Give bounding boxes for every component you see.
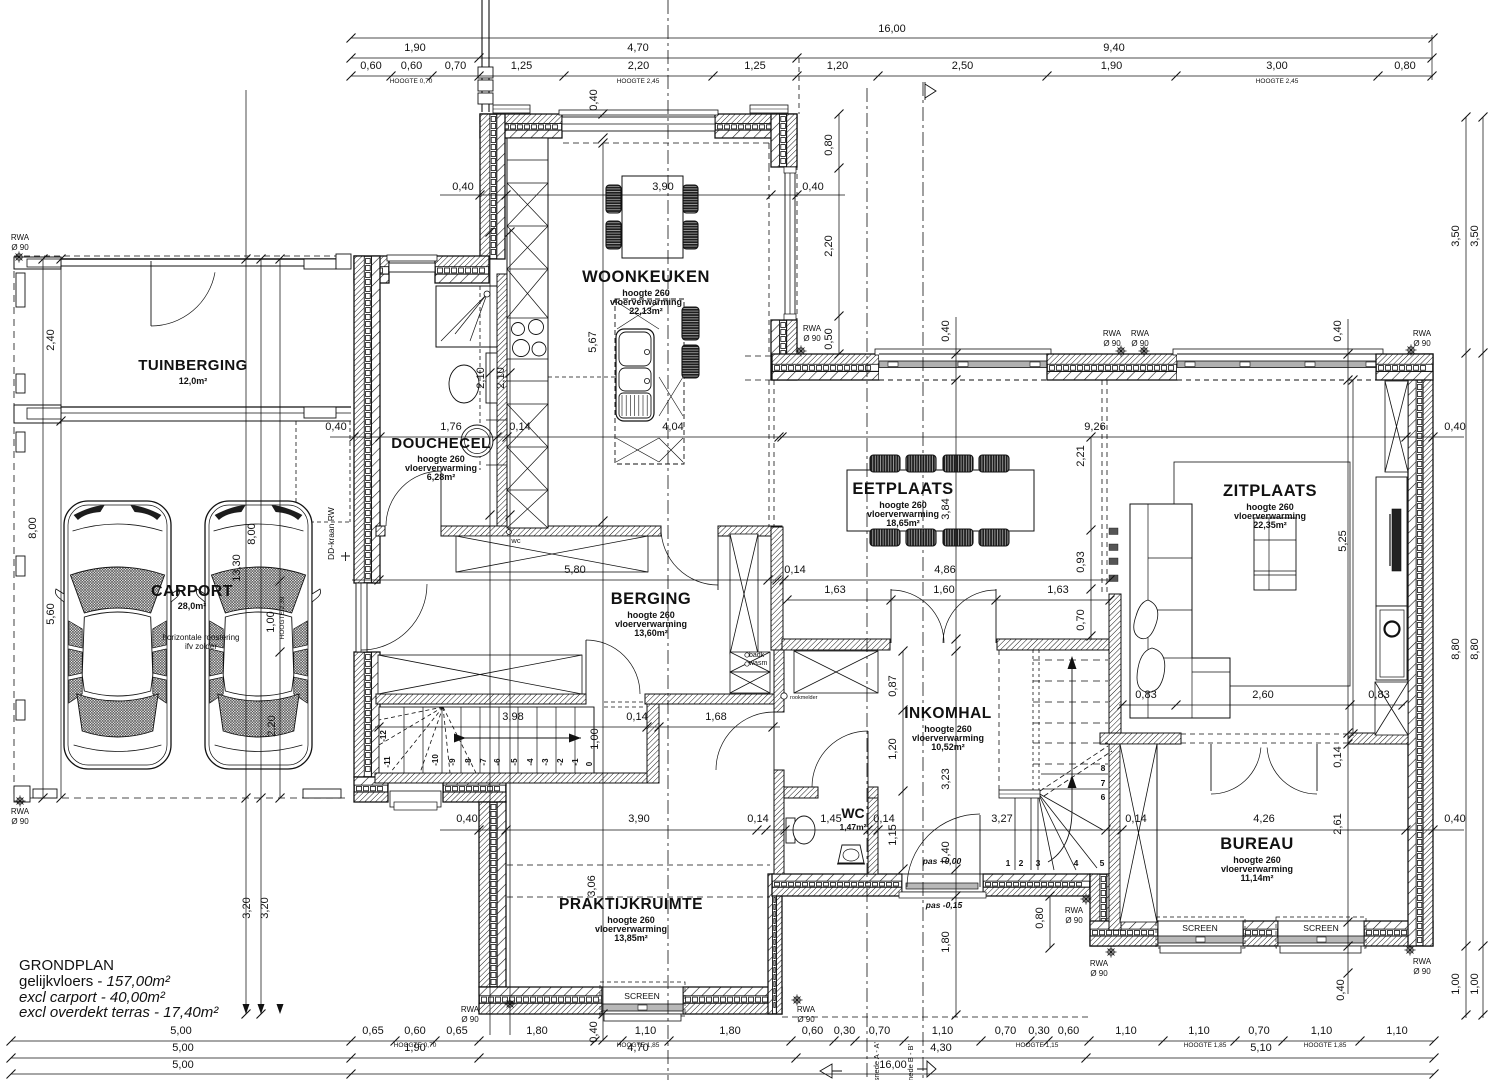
RWA symbol carport bottom-left (15, 796, 26, 807)
svg-text:0,40: 0,40 (325, 421, 346, 433)
dashed counter line douchecel (548, 376, 615, 378)
svg-text:ZITPLAATS: ZITPLAATS (1223, 482, 1317, 500)
car 2 in carport (196, 501, 320, 769)
stairs: upper direction arrow (1048, 658, 1072, 862)
svg-text:7: 7 (1101, 778, 1106, 788)
svg-text:1,00: 1,00 (1450, 973, 1462, 994)
window: north wing window 2 (1173, 349, 1383, 355)
witness line x=956 eetplaats/inkomhal (955, 317, 957, 1017)
RWA symbol kitchen west (796, 346, 807, 357)
svg-text:-9: -9 (448, 758, 457, 766)
svg-text:0,70: 0,70 (995, 1025, 1016, 1037)
wall: north wing, segment between windows (1047, 354, 1177, 364)
svg-text:3,50: 3,50 (1469, 225, 1481, 246)
svg-text:1,68: 1,68 (705, 711, 726, 723)
dimension chain: left 2,40 5,60 (60, 259, 62, 798)
svg-text:1,10: 1,10 (1311, 1025, 1332, 1037)
svg-text:10,52m²: 10,52m² (931, 742, 965, 752)
svg-text:0,30: 0,30 (1028, 1025, 1049, 1037)
svg-text:9,26: 9,26 (1084, 421, 1105, 433)
svg-text:0,40: 0,40 (940, 841, 952, 862)
wall: east facade (1408, 354, 1416, 946)
svg-text:2,20: 2,20 (823, 235, 835, 256)
svg-text:5,60: 5,60 (45, 603, 57, 624)
stairs: basement winder dashes (379, 707, 443, 720)
svg-text:1,90: 1,90 (404, 1042, 425, 1054)
svg-text:0,70: 0,70 (1248, 1025, 1269, 1037)
convector grilles at sliding door (1109, 528, 1118, 535)
window: douchecel north window (387, 255, 437, 261)
witness line x=903 inkomhal (902, 651, 904, 869)
svg-text:0,70: 0,70 (869, 1025, 890, 1037)
svg-text:DOUCHECEL: DOUCHECEL (391, 435, 491, 452)
stairs: upper cut dashes (1040, 746, 1108, 791)
svg-text:1,60: 1,60 (933, 584, 954, 596)
car 1 in carport (55, 501, 179, 769)
svg-text:-8: -8 (464, 758, 473, 766)
RWA symbol praktijk south-west (505, 999, 516, 1010)
door: kitchen-berging door (717, 528, 719, 590)
svg-text:1,25: 1,25 (511, 60, 532, 72)
wall: berging south exterior, west segment (354, 777, 388, 785)
section line axis kitchen (667, 0, 669, 1080)
window: bureau south window 2 SCREEN (1278, 921, 1364, 946)
svg-text:3,00: 3,00 (1266, 60, 1287, 72)
svg-text:RWA: RWA (803, 324, 822, 333)
RWA symbol bureau south-west (1106, 947, 1117, 958)
svg-text:1,90: 1,90 (1101, 60, 1122, 72)
witness line: right end of top chains (1431, 35, 1433, 80)
dimension chain: top detailed (351, 75, 1433, 77)
douchecel toilet (486, 353, 497, 403)
svg-text:ifv zolder: ifv zolder (185, 642, 217, 651)
svg-text:-10: -10 (431, 754, 440, 766)
zitplaats coffee table (1254, 518, 1296, 590)
dashed line: north wing wall stubs west of kitchen wall (745, 355, 772, 357)
post: tuinberging top-left (14, 257, 61, 269)
svg-text:RWA: RWA (1413, 957, 1432, 966)
kitchen table (622, 176, 683, 258)
shower tray (436, 286, 497, 347)
svg-text:RWA: RWA (1065, 906, 1084, 915)
svg-text:2,20: 2,20 (266, 715, 278, 736)
chimney at kitchen top-left (481, 0, 483, 112)
svg-text:0,14: 0,14 (1125, 813, 1146, 825)
post: divider right (304, 407, 336, 418)
window: north wing window 1 (875, 349, 1051, 355)
dimension chain: bottom middle (11, 1057, 1434, 1059)
post: tuinberging west low (16, 374, 25, 393)
svg-text:excl overdekt terras - 17,40m²: excl overdekt terras - 17,40m² (19, 1004, 219, 1021)
bureau closet (1120, 744, 1157, 922)
dimension line: kitchen 0,40 3,90 0,40 (440, 194, 845, 196)
zone: DD-kraan dashed duct (295, 421, 297, 522)
svg-text:0,40: 0,40 (1444, 421, 1465, 433)
svg-text:1,25: 1,25 (744, 60, 765, 72)
wc toilet (786, 818, 795, 843)
dashed line: zitplaats vide edge (1101, 380, 1103, 594)
wall: bureau south, east segment (1364, 921, 1433, 929)
RWA symbol porch (1081, 894, 1092, 905)
svg-text:HOOGTE 0,70: HOOGTE 0,70 (390, 78, 433, 85)
svg-text:28,0m²: 28,0m² (178, 601, 207, 611)
svg-text:0,40: 0,40 (452, 181, 473, 193)
svg-text:8,80: 8,80 (1450, 638, 1462, 659)
cooktop burners (512, 323, 525, 336)
svg-text:0,80: 0,80 (1034, 907, 1046, 928)
svg-text:0,83: 0,83 (1368, 689, 1389, 701)
dimension line: y=727 stairs (375, 726, 780, 728)
svg-text:0,40: 0,40 (588, 89, 600, 110)
svg-text:4,26: 4,26 (1253, 813, 1274, 825)
eetplaats chairs top row (870, 455, 900, 472)
svg-text:badk: badk (749, 652, 765, 659)
dimension chain: right inner 0,80 2,20 0,50 (838, 114, 840, 354)
svg-text:3,90: 3,90 (628, 813, 649, 825)
svg-text:0,65: 0,65 (446, 1025, 467, 1037)
dimension line: y=830 main horizontal south (440, 829, 1464, 831)
dashed line: eetplaats upper floor edge (768, 380, 770, 527)
island stools (682, 307, 699, 340)
lowboard with bowl (1376, 606, 1407, 680)
svg-text:0,30: 0,30 (834, 1025, 855, 1037)
wall: inkomhal west lower (774, 770, 784, 874)
wall: inkomhal north, west segment (782, 639, 890, 650)
svg-text:horizontale roostering: horizontale roostering (163, 633, 240, 642)
kitchen island x-bottom (616, 438, 659, 462)
svg-text:0,14: 0,14 (626, 711, 647, 723)
wall: berging south / stair north, east segment (645, 694, 774, 704)
stairs: winder fan (1038, 793, 1103, 830)
svg-text:PRAKTIJKRUIMTE: PRAKTIJKRUIMTE (559, 896, 703, 913)
wall: berging south exterior, east segment (443, 777, 506, 785)
svg-text:-4: -4 (526, 758, 535, 766)
svg-text:2: 2 (1019, 858, 1024, 868)
witness line x=603 with 5,67 and 3,06 (602, 143, 604, 1040)
svg-text:18,65m²: 18,65m² (886, 518, 920, 528)
svg-text:4,04: 4,04 (662, 421, 683, 433)
dimension line: y=705 zitplaats (1119, 704, 1405, 706)
svg-text:Ø 90: Ø 90 (11, 817, 29, 826)
dimension line: y=437 main horizontal (330, 436, 1464, 438)
svg-text:12,0m²: 12,0m² (179, 376, 208, 386)
svg-text:0,70: 0,70 (445, 60, 466, 72)
dimension lines: carport cluster (245, 90, 247, 1014)
svg-text:-11: -11 (383, 756, 392, 768)
svg-text:0,70: 0,70 (1075, 609, 1087, 630)
wall: north wing east corner (1376, 354, 1433, 364)
dashed line: carport south boundary (14, 797, 345, 799)
berging bottom cupboard (378, 655, 582, 694)
svg-text:HOOGTE 1,85: HOOGTE 1,85 (1304, 1042, 1347, 1049)
svg-text:1,76: 1,76 (440, 421, 461, 433)
svg-text:2,61: 2,61 (1332, 813, 1344, 834)
douchecel washbasin (461, 425, 493, 457)
door: berging south door threshold (390, 791, 441, 807)
svg-text:3,98: 3,98 (502, 711, 523, 723)
wall: praktijkruimte east (768, 874, 773, 1014)
dimension lines: tuinberging 2,10 (489, 229, 491, 515)
door: front entrance door (979, 815, 981, 887)
witness dashed verticals right of kitchen (768, 167, 770, 354)
wall: praktijkruimte south, west segment (479, 987, 602, 996)
dashed line: carport west boundary (13, 259, 15, 798)
svg-text:WC: WC (841, 805, 864, 821)
svg-text:22,35m²: 22,35m² (1253, 520, 1287, 530)
dashed line: douchecel axis (479, 286, 481, 470)
svg-text:wc: wc (510, 536, 520, 545)
RWA symbols north wing middle (1116, 346, 1127, 357)
roof overhang mark left (493, 105, 530, 113)
svg-text:RWA: RWA (797, 1005, 816, 1014)
dashed line: porch slab edge (782, 1016, 1088, 1018)
wall: woonkeuken north, east segment (715, 114, 797, 124)
door: bureau double doors (1210, 744, 1212, 791)
section line B-B (922, 82, 924, 1080)
svg-text:3,20: 3,20 (259, 897, 271, 918)
svg-text:pas -0,15: pas -0,15 (925, 900, 963, 910)
svg-text:1,90: 1,90 (404, 42, 425, 54)
wall: wc north east stub (868, 787, 878, 798)
svg-text:2,60: 2,60 (1252, 689, 1273, 701)
svg-text:0,40: 0,40 (1335, 979, 1347, 1000)
svg-text:-7: -7 (479, 758, 488, 766)
svg-text:WOONKEUKEN: WOONKEUKEN (582, 268, 710, 286)
stairs: basement direction arrow (454, 737, 581, 739)
svg-text:2,40: 2,40 (45, 329, 57, 350)
svg-text:3,06: 3,06 (586, 875, 598, 896)
svg-text:0,80: 0,80 (823, 134, 835, 155)
svg-text:HOOGTE 2,39: HOOGTE 2,39 (279, 596, 286, 639)
svg-text:GRONDPLAN: GRONDPLAN (19, 957, 114, 974)
wall: woonkeuken west (480, 114, 490, 259)
svg-text:5,80: 5,80 (564, 564, 585, 576)
svg-text:3,90: 3,90 (652, 181, 673, 193)
eetplaats table (847, 470, 1034, 531)
svg-text:1,10: 1,10 (635, 1025, 656, 1037)
svg-text:1,20: 1,20 (827, 60, 848, 72)
svg-text:1,00: 1,00 (589, 728, 601, 749)
svg-text:5,67: 5,67 (587, 331, 599, 352)
svg-text:3,23: 3,23 (940, 768, 952, 789)
tv cabinet (1376, 477, 1407, 606)
wall: tuinberging north (timber) (14, 258, 351, 260)
eetplaats chairs bottom row (870, 529, 900, 546)
RWA symbol praktijk south-east (792, 995, 803, 1006)
svg-text:Ø 90: Ø 90 (1413, 967, 1431, 976)
svg-text:1,20: 1,20 (887, 738, 899, 759)
svg-text:2,21: 2,21 (1075, 445, 1087, 466)
svg-text:-3: -3 (541, 758, 550, 766)
svg-text:0,40: 0,40 (1332, 320, 1344, 341)
svg-text:wasm: wasm (748, 660, 767, 667)
svg-text:HOOGTE 2,45: HOOGTE 2,45 (617, 78, 660, 85)
svg-text:1,63: 1,63 (824, 584, 845, 596)
svg-text:Ø 90: Ø 90 (803, 334, 821, 343)
svg-text:Ø 90: Ø 90 (1103, 339, 1121, 348)
svg-text:HOOGTE 1,15: HOOGTE 1,15 (1016, 1042, 1059, 1049)
wall: tuinberging/carport divider (14, 406, 351, 408)
svg-text:0,40: 0,40 (588, 1021, 600, 1042)
svg-text:HOOGTE 1,85: HOOGTE 1,85 (1184, 1042, 1227, 1049)
post: tuinberging west mid (16, 273, 25, 307)
door: entrance threshold (902, 874, 983, 892)
door: eetplaats double doors (890, 589, 892, 643)
wall: berging east partition (771, 527, 783, 650)
svg-text:-6: -6 (493, 758, 502, 766)
svg-text:RWA: RWA (1090, 959, 1109, 968)
svg-text:8: 8 (1101, 763, 1106, 773)
svg-text:3,27: 3,27 (991, 813, 1012, 825)
wall: praktijkruimte south, east segment (683, 987, 782, 996)
svg-text:1,63: 1,63 (1047, 584, 1068, 596)
wall: zitplaats/inkomhal + bureau west wall (1109, 594, 1121, 930)
svg-text:0,60: 0,60 (401, 60, 422, 72)
witness line x=1050 porch 0,80 (1049, 896, 1051, 948)
svg-text:0,14: 0,14 (1332, 746, 1344, 767)
kitchen sink unit (616, 329, 654, 421)
svg-text:snede B - B': snede B - B' (906, 1043, 915, 1080)
svg-text:0,40: 0,40 (1444, 813, 1465, 825)
wall: douchecel-berging partition west (376, 526, 385, 536)
svg-text:3,20: 3,20 (241, 897, 253, 918)
svg-text:RWA: RWA (1131, 329, 1150, 338)
svg-text:SCREEN: SCREEN (1303, 923, 1338, 933)
svg-text:RWA: RWA (11, 233, 30, 242)
stairs: basement flight (379, 707, 594, 773)
dashed line: praktijkruimte ceiling lines (507, 864, 770, 866)
kitchen island dashed outline (615, 299, 684, 464)
window: woonkeuken north window (559, 110, 718, 115)
svg-text:Ø 90: Ø 90 (1065, 916, 1083, 925)
wall: woonkeuken north, west segment (480, 114, 562, 124)
wall: bureau north, east segment (1348, 733, 1408, 744)
stairs: landing strip (999, 790, 1040, 798)
svg-text:1,00: 1,00 (1469, 973, 1481, 994)
post: tuinberging top-right (304, 259, 336, 269)
svg-text:Ø 90: Ø 90 (11, 243, 29, 252)
berging top cupboard (456, 536, 648, 572)
post: carport west low (16, 700, 25, 720)
window: bureau south window 1 SCREEN (1158, 921, 1243, 946)
wall: woonkeuken east lower corner (771, 320, 780, 380)
svg-text:16,00: 16,00 (878, 23, 906, 35)
dimension chain: left 8,00 (42, 259, 44, 798)
svg-text:0,83: 0,83 (1135, 689, 1156, 701)
kitchen counter column (507, 138, 548, 528)
RWA symbol bureau south-east (1405, 945, 1416, 956)
dimension line: y=580 berging/eetplaats (352, 579, 1110, 581)
wall: stairwell east stub (647, 704, 659, 783)
svg-text:0,80: 0,80 (1394, 60, 1415, 72)
svg-text:4,70: 4,70 (627, 42, 648, 54)
svg-text:1,10: 1,10 (1188, 1025, 1209, 1037)
svg-text:TUINBERGING: TUINBERGING (138, 357, 247, 374)
svg-text:RWA: RWA (461, 1005, 480, 1014)
svg-text:0,65: 0,65 (362, 1025, 383, 1037)
door: tuinberging door (150, 261, 152, 326)
svg-text:0,14: 0,14 (784, 564, 805, 576)
roof overhang mark right (750, 105, 788, 113)
wall: bureau north, west segment (1100, 733, 1181, 744)
svg-text:HOOGTE 2,45: HOOGTE 2,45 (1256, 78, 1299, 85)
dashed line: stair opening above (604, 701, 646, 703)
svg-text:0,93: 0,93 (1075, 551, 1087, 572)
svg-text:8,00: 8,00 (246, 523, 258, 544)
window: woonkeuken east window (785, 167, 795, 320)
post: carport south-east footing (303, 789, 341, 798)
wall: porch south (entrance), west segment (772, 874, 902, 881)
RWA symbol top-left (14, 252, 25, 263)
wall: inkomhal north, east segment (997, 639, 1119, 650)
svg-text:5,00: 5,00 (172, 1059, 193, 1071)
wall: bureau south, middle segment (1243, 921, 1278, 929)
svg-text:1: 1 (1006, 858, 1011, 868)
zitplaats corner cupboard south (1375, 682, 1408, 735)
wall: bureau south, west segment (1090, 921, 1158, 929)
door: berging west door panel (356, 583, 367, 652)
wall: annex north (douchecel), east segment (435, 256, 489, 267)
svg-text:1,15: 1,15 (887, 824, 899, 845)
post: carport south-west footing (33, 789, 57, 798)
svg-text:BUREAU: BUREAU (1220, 835, 1294, 853)
dashed line: bureau door head (1181, 733, 1348, 735)
svg-text:5: 5 (1100, 858, 1105, 868)
svg-text:2,10: 2,10 (475, 367, 487, 388)
sofa cushions (1134, 600, 1158, 639)
dashed line: kitchen roof edge (563, 142, 770, 144)
wall: west facade (354, 256, 364, 583)
svg-text:4,30: 4,30 (930, 1042, 951, 1054)
svg-text:EETPLAATS: EETPLAATS (852, 480, 953, 498)
svg-text:0,60: 0,60 (404, 1025, 425, 1037)
svg-text:1,80: 1,80 (526, 1025, 547, 1037)
dimension chain: bottom detailed (11, 1040, 1434, 1042)
svg-text:0,14: 0,14 (873, 813, 894, 825)
stairs: upper flight stringer dashes (998, 650, 1000, 793)
witness line: kitchen wall corner dashed up (798, 58, 800, 114)
stairs: upper flight treads (1033, 659, 1108, 661)
svg-text:DD-kraan RW: DD-kraan RW (326, 507, 336, 560)
svg-text:1,45: 1,45 (820, 813, 841, 825)
svg-text:0,40: 0,40 (456, 813, 477, 825)
door: berging-stair hall door (585, 640, 587, 694)
svg-text:4,70: 4,70 (627, 1042, 648, 1054)
svg-text:0,14: 0,14 (509, 421, 530, 433)
washer dryer (730, 652, 770, 672)
svg-text:22,13m²: 22,13m² (629, 306, 663, 316)
svg-text:1,80: 1,80 (719, 1025, 740, 1037)
svg-text:0,60: 0,60 (1058, 1025, 1079, 1037)
svg-text:0,40: 0,40 (802, 181, 823, 193)
svg-text:3: 3 (1036, 858, 1041, 868)
door: douchecel door (440, 471, 442, 526)
svg-text:3,84: 3,84 (940, 498, 952, 519)
witness line x=1091 zitplaats west (1090, 437, 1092, 640)
svg-text:Ø 90: Ø 90 (1090, 969, 1108, 978)
svg-text:RWA: RWA (11, 807, 30, 816)
window: praktijkruimte south window SCREEN (602, 987, 683, 1014)
wall: stair south (375, 773, 659, 783)
svg-text:1,80: 1,80 (940, 931, 952, 952)
wc washbasin (838, 845, 864, 863)
svg-text:-1: -1 (571, 758, 580, 766)
svg-text:5,00: 5,00 (170, 1025, 191, 1037)
svg-text:5,25: 5,25 (1337, 530, 1349, 551)
svg-text:3,50: 3,50 (1450, 225, 1462, 246)
kitchen table chairs (606, 185, 621, 213)
wall: porch south (entrance), east segment (983, 874, 1090, 881)
